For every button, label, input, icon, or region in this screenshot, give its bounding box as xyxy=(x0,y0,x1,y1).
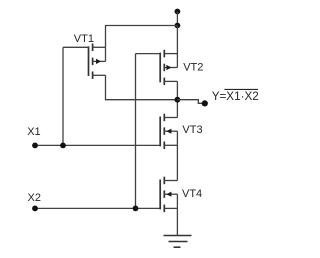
VT2 substrate arrow (points right) xyxy=(166,65,171,70)
VT4 drain stub xyxy=(164,180,177,182)
wire: input X2 vertical riser (VT2 gate to X2 line) xyxy=(135,54,137,209)
VT3 substrate arrow (points left) xyxy=(166,129,171,134)
wire: input X1 horizontal line xyxy=(35,144,160,146)
VT3 gate bar xyxy=(159,117,161,147)
VT4 gate bar xyxy=(159,180,161,210)
VT2 source stub xyxy=(164,80,177,82)
transistor VT4 (n-channel, bottom) xyxy=(160,177,202,212)
VT2 source contact tick xyxy=(163,78,165,86)
VT4 drain contact tick xyxy=(163,177,165,185)
wire: input X1 vertical riser to VT1 gate xyxy=(62,47,64,145)
output terminal dot Y xyxy=(202,100,208,106)
wire: input X2 horizontal line xyxy=(35,207,160,209)
svg-text:VT3: VT3 xyxy=(182,124,202,136)
VT3 source stub xyxy=(164,144,177,146)
svg-text:X2: X2 xyxy=(28,192,41,204)
VT1 drain contact tick xyxy=(92,44,94,52)
VT1 source stub xyxy=(93,74,106,76)
node: X1 junction dot xyxy=(60,143,66,149)
VT3 substrate contact tick xyxy=(163,127,165,134)
VT2 gate lead xyxy=(136,53,161,55)
wire: right rail segment D (VT4 substrate tie to ground) xyxy=(176,194,178,235)
label Y=X1·X2 with overline xyxy=(212,89,259,103)
VT4 substrate contact tick xyxy=(163,190,165,198)
wire: top horizontal branch to VT1 drain xyxy=(106,26,178,48)
VT2 gate bar xyxy=(159,53,161,83)
VT4 source stub xyxy=(164,207,177,209)
VT3 drain contact tick xyxy=(163,114,165,122)
VT1 substrate arrow (points right) xyxy=(96,59,101,64)
VT2 drain stub xyxy=(164,53,177,55)
node: X2 junction dot xyxy=(133,206,139,212)
svg-text:X1: X1 xyxy=(27,126,40,138)
VT2 substrate stub xyxy=(164,67,177,69)
VT1 substrate contact tick xyxy=(92,58,94,66)
power terminal dot (top supply pin) xyxy=(175,9,181,15)
VT4 substrate stub xyxy=(164,193,177,195)
VT1 gate lead xyxy=(63,46,89,48)
VT1 drain stub xyxy=(93,46,106,48)
wire: right rail segment A (supply to VT2 substrate tie) xyxy=(176,26,178,68)
wire: right rail segment C (VT3 substrate tie to VT4 drain) xyxy=(176,131,178,180)
node: output junction dot xyxy=(175,97,181,103)
wire: VT1 source down and right to output node xyxy=(106,75,178,99)
input terminal dot X2 xyxy=(32,206,38,212)
svg-text:VT2: VT2 xyxy=(183,61,203,73)
input terminal dot X1 xyxy=(32,143,38,149)
transistor VT1 (p-channel, top-left) xyxy=(63,33,106,79)
wire: output lead with step xyxy=(177,100,204,104)
wire: right rail segment B (VT2 source to VT3 drain) xyxy=(176,81,178,117)
transistor VT2 (p-channel, right top) xyxy=(136,50,204,85)
VT2 drain contact tick xyxy=(163,50,165,58)
VT3 substrate stub xyxy=(164,130,177,132)
transistor VT3 (n-channel) xyxy=(160,114,202,149)
VT3 source contact tick xyxy=(163,142,165,150)
svg-text:VT4: VT4 xyxy=(182,188,202,200)
svg-text:VT1: VT1 xyxy=(74,33,94,45)
wire: supply pin down to junction xyxy=(176,12,178,26)
VT2 substrate contact tick xyxy=(163,64,165,71)
VT1 source contact tick xyxy=(92,72,94,80)
VT3 drain stub xyxy=(164,117,177,119)
svg-text:Y=X1·X2: Y=X1·X2 xyxy=(212,90,259,103)
VT1 substrate stub xyxy=(93,60,106,62)
node: supply junction dot xyxy=(175,23,181,29)
VT1 substrate tie to drain xyxy=(105,47,107,61)
ground symbol xyxy=(164,236,192,248)
VT4 substrate arrow (points left) xyxy=(166,192,171,197)
VT4 source contact tick xyxy=(163,205,165,213)
VT1 gate bar xyxy=(88,46,90,76)
